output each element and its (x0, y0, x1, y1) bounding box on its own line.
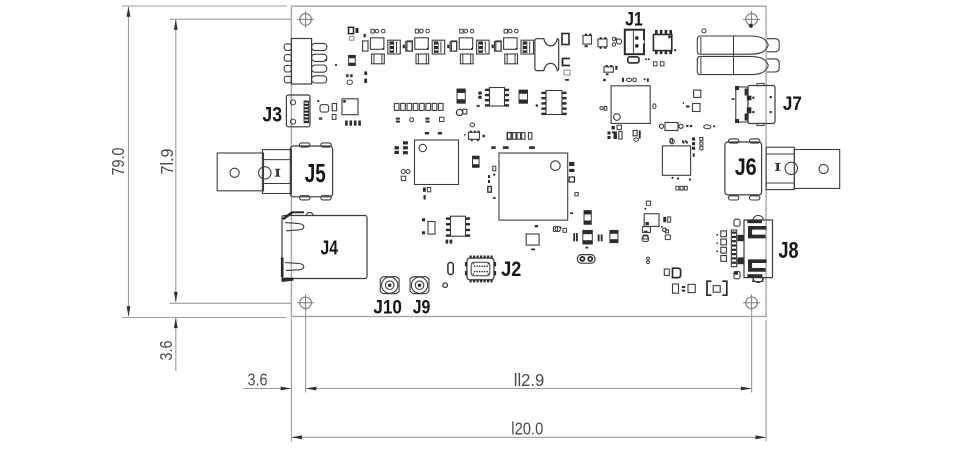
svg-text:J6: J6 (735, 154, 757, 181)
connector J3 micro-USB (286, 95, 310, 127)
bracket below J8 (735, 272, 764, 282)
svg-text:7l.9: 7l.9 (157, 149, 177, 175)
test point dot top-right (749, 24, 752, 27)
dimension label 3.6 vertical (156, 341, 176, 361)
ic U1 (600, 78, 656, 133)
crystal Y1 (535, 39, 559, 71)
passives below U10 (653, 49, 676, 66)
passives bottom strip B (643, 227, 651, 239)
ic U8 SSOP (541, 91, 566, 116)
tick left of group1 (364, 34, 366, 37)
svg-text:3.6: 3.6 (248, 369, 268, 389)
dimension label 71.9 (157, 149, 177, 175)
filter right of U4 area (659, 123, 683, 131)
connector J9 MCX (410, 277, 429, 294)
connector J1 terminal block (625, 30, 645, 55)
transistor Q2 (598, 37, 607, 49)
connector J5 mounting plate (217, 153, 263, 191)
dimension label 112.9 (514, 370, 545, 390)
circle right of U3 bottom (555, 226, 560, 231)
parts center-bottom row2 (673, 284, 696, 293)
dimension 79.0 extension line top (122, 5, 287, 7)
inductor with tab (456, 109, 466, 115)
dimension 79.0 line (127, 6, 131, 317)
dimension 3.6 horizontal line (243, 387, 291, 391)
dimension 112.9 line (306, 387, 752, 391)
extension line hole-left below (305, 311, 307, 393)
resistor array below U6 (345, 121, 361, 126)
pill left of J2 (448, 263, 453, 275)
ic U5 (644, 214, 659, 227)
optocoupler brackets (707, 281, 727, 295)
mounting hole bottom-right (743, 294, 760, 311)
resistor below pair (349, 37, 354, 41)
connector J6 BNC jack (725, 139, 762, 200)
passives above U4 (670, 138, 703, 150)
ic U10 SOIC-8 near J1 (653, 30, 672, 54)
passives right of C12 (488, 175, 490, 183)
label J7 (783, 94, 802, 115)
mounting hole bottom-left (297, 294, 314, 311)
via top-right (702, 29, 706, 33)
mounting hole top-right (743, 11, 760, 28)
capacitor C10 (457, 89, 465, 103)
svg-text:J9: J9 (413, 297, 431, 319)
connector J6 mounting plate (794, 150, 839, 189)
ic U4 (662, 146, 690, 175)
ic U6 near J3 (342, 99, 358, 115)
ic U7 SOIC-8 (485, 88, 509, 107)
passives below U2 (423, 187, 431, 199)
jumper J-P1 (577, 255, 595, 264)
passives below U4 (671, 177, 691, 190)
svg-text:79.0: 79.0 (108, 147, 128, 175)
oscillator left of J1 (583, 34, 592, 48)
ic U2 QFN (415, 140, 459, 185)
dash pair (603, 79, 606, 81)
capacitor C11 (519, 90, 528, 103)
ic U3 BGA (499, 153, 568, 220)
passives bottom strip C (661, 226, 670, 240)
parts right of J3 (317, 64, 337, 120)
svg-text:J1: J1 (625, 8, 643, 30)
dimension 71.9 line (174, 19, 178, 302)
fuse holder pair top-right (697, 36, 779, 75)
passives bottom strip A (554, 227, 567, 233)
passives right of U5 (663, 217, 670, 222)
label J4 (321, 238, 339, 260)
ring left of J10 (443, 283, 448, 288)
filter group 1 (363, 29, 413, 64)
svg-text:J4: J4 (321, 238, 339, 260)
dot small (470, 104, 538, 127)
dimension label 120.0 (511, 419, 543, 439)
svg-text:J8: J8 (778, 237, 798, 263)
capacitor right of crystal (562, 34, 569, 45)
passives near J7 bottom (686, 125, 715, 129)
dimension 71.9 extension line bottom (170, 302, 292, 304)
capacitor column left of J8 (716, 231, 726, 261)
dot near edge (325, 59, 327, 61)
connector J2 (465, 256, 496, 283)
capacitor row of 8 (394, 103, 443, 110)
passives pair A (608, 132, 623, 140)
passives left of U3 (488, 166, 496, 199)
passives above U5 (644, 201, 650, 210)
circle bottom of J7 area (670, 139, 688, 144)
connector J5 BNC jack (290, 143, 332, 200)
passive oval (346, 74, 352, 84)
label J2 (501, 257, 521, 281)
capacitors left of U2 lower (401, 170, 410, 181)
passives below cap row (396, 117, 444, 122)
dimension 71.9 extension line top (170, 18, 292, 20)
label J6 (735, 154, 757, 181)
transistor Q3 (604, 65, 613, 75)
capacitor C near edge (349, 55, 356, 65)
parts center-bottom (664, 268, 680, 277)
capacitor pair small (478, 92, 481, 99)
capacitor pair top-left (349, 27, 359, 33)
label J9 (413, 297, 431, 319)
svg-text:J2: J2 (501, 257, 521, 281)
capacitor C20 (584, 211, 591, 225)
svg-text:J5: J5 (305, 158, 326, 188)
capacitor C12 tantalum (473, 156, 480, 167)
dimension label 3.6 horizontal (248, 369, 268, 389)
connector header top-left (284, 39, 327, 85)
ic U9 SOIC-8 (446, 216, 471, 243)
passives below U3 (526, 225, 539, 250)
dots right of J1 (645, 58, 650, 60)
svg-text:l20.0: l20.0 (511, 419, 543, 439)
transistor Q1 SOT23-5 (464, 131, 485, 142)
extension line board-left below (290, 318, 292, 442)
connector J4 RJ45 jack (281, 211, 367, 282)
resistor network row (507, 133, 532, 140)
svg-text:3.6: 3.6 (156, 341, 176, 361)
dash right of U4 (693, 153, 695, 157)
passives right of U3 (569, 162, 578, 214)
label J5 (305, 158, 326, 188)
svg-text:J10: J10 (373, 297, 402, 319)
svg-text:J7: J7 (783, 94, 802, 115)
label J8 (778, 237, 798, 263)
label J1 (625, 8, 643, 30)
connector J7 (732, 83, 776, 125)
capacitor right of crystal 2 (563, 59, 571, 66)
connector J10 MCX (380, 277, 399, 294)
passives below U5 (642, 230, 668, 242)
resistors above U3 (491, 146, 535, 149)
capacitor stack below group1 (364, 71, 367, 83)
passives left of U2 (395, 141, 408, 154)
resistor right of crystal (564, 70, 570, 75)
resistors above U2 (425, 132, 442, 134)
dimension label 79.0 (108, 147, 128, 175)
capacitor bank bottom (573, 230, 618, 248)
PCB board outline (291, 6, 766, 316)
svg-text:J3: J3 (262, 104, 282, 127)
capacitors right-center (683, 90, 701, 111)
dimension 3.6 vertical line (174, 318, 178, 371)
filter group 2 (407, 29, 457, 64)
pair dots bottom (647, 257, 650, 264)
extension line board-right below (765, 320, 767, 442)
filter group 4 (496, 29, 534, 64)
connector J8 HDMI (731, 215, 772, 282)
capacitor below J1 (628, 57, 639, 63)
connector J5 barrel (259, 150, 292, 194)
label J3 (262, 104, 282, 127)
dimension 79.0 extension line bottom (122, 317, 286, 319)
svg-text:ll2.9: ll2.9 (514, 370, 545, 390)
label J10 (373, 297, 402, 319)
capacitor pill left of U9 (422, 218, 435, 234)
filter group 3 (451, 29, 501, 64)
extension line hole-right below (751, 311, 753, 393)
passives pair B (633, 130, 641, 141)
mounting hole top-left (297, 11, 314, 28)
dimension 120.0 line (292, 435, 767, 439)
parts left of J1 (612, 37, 621, 70)
connector J6 barrel (766, 147, 797, 189)
dash right of crystal (565, 79, 569, 81)
